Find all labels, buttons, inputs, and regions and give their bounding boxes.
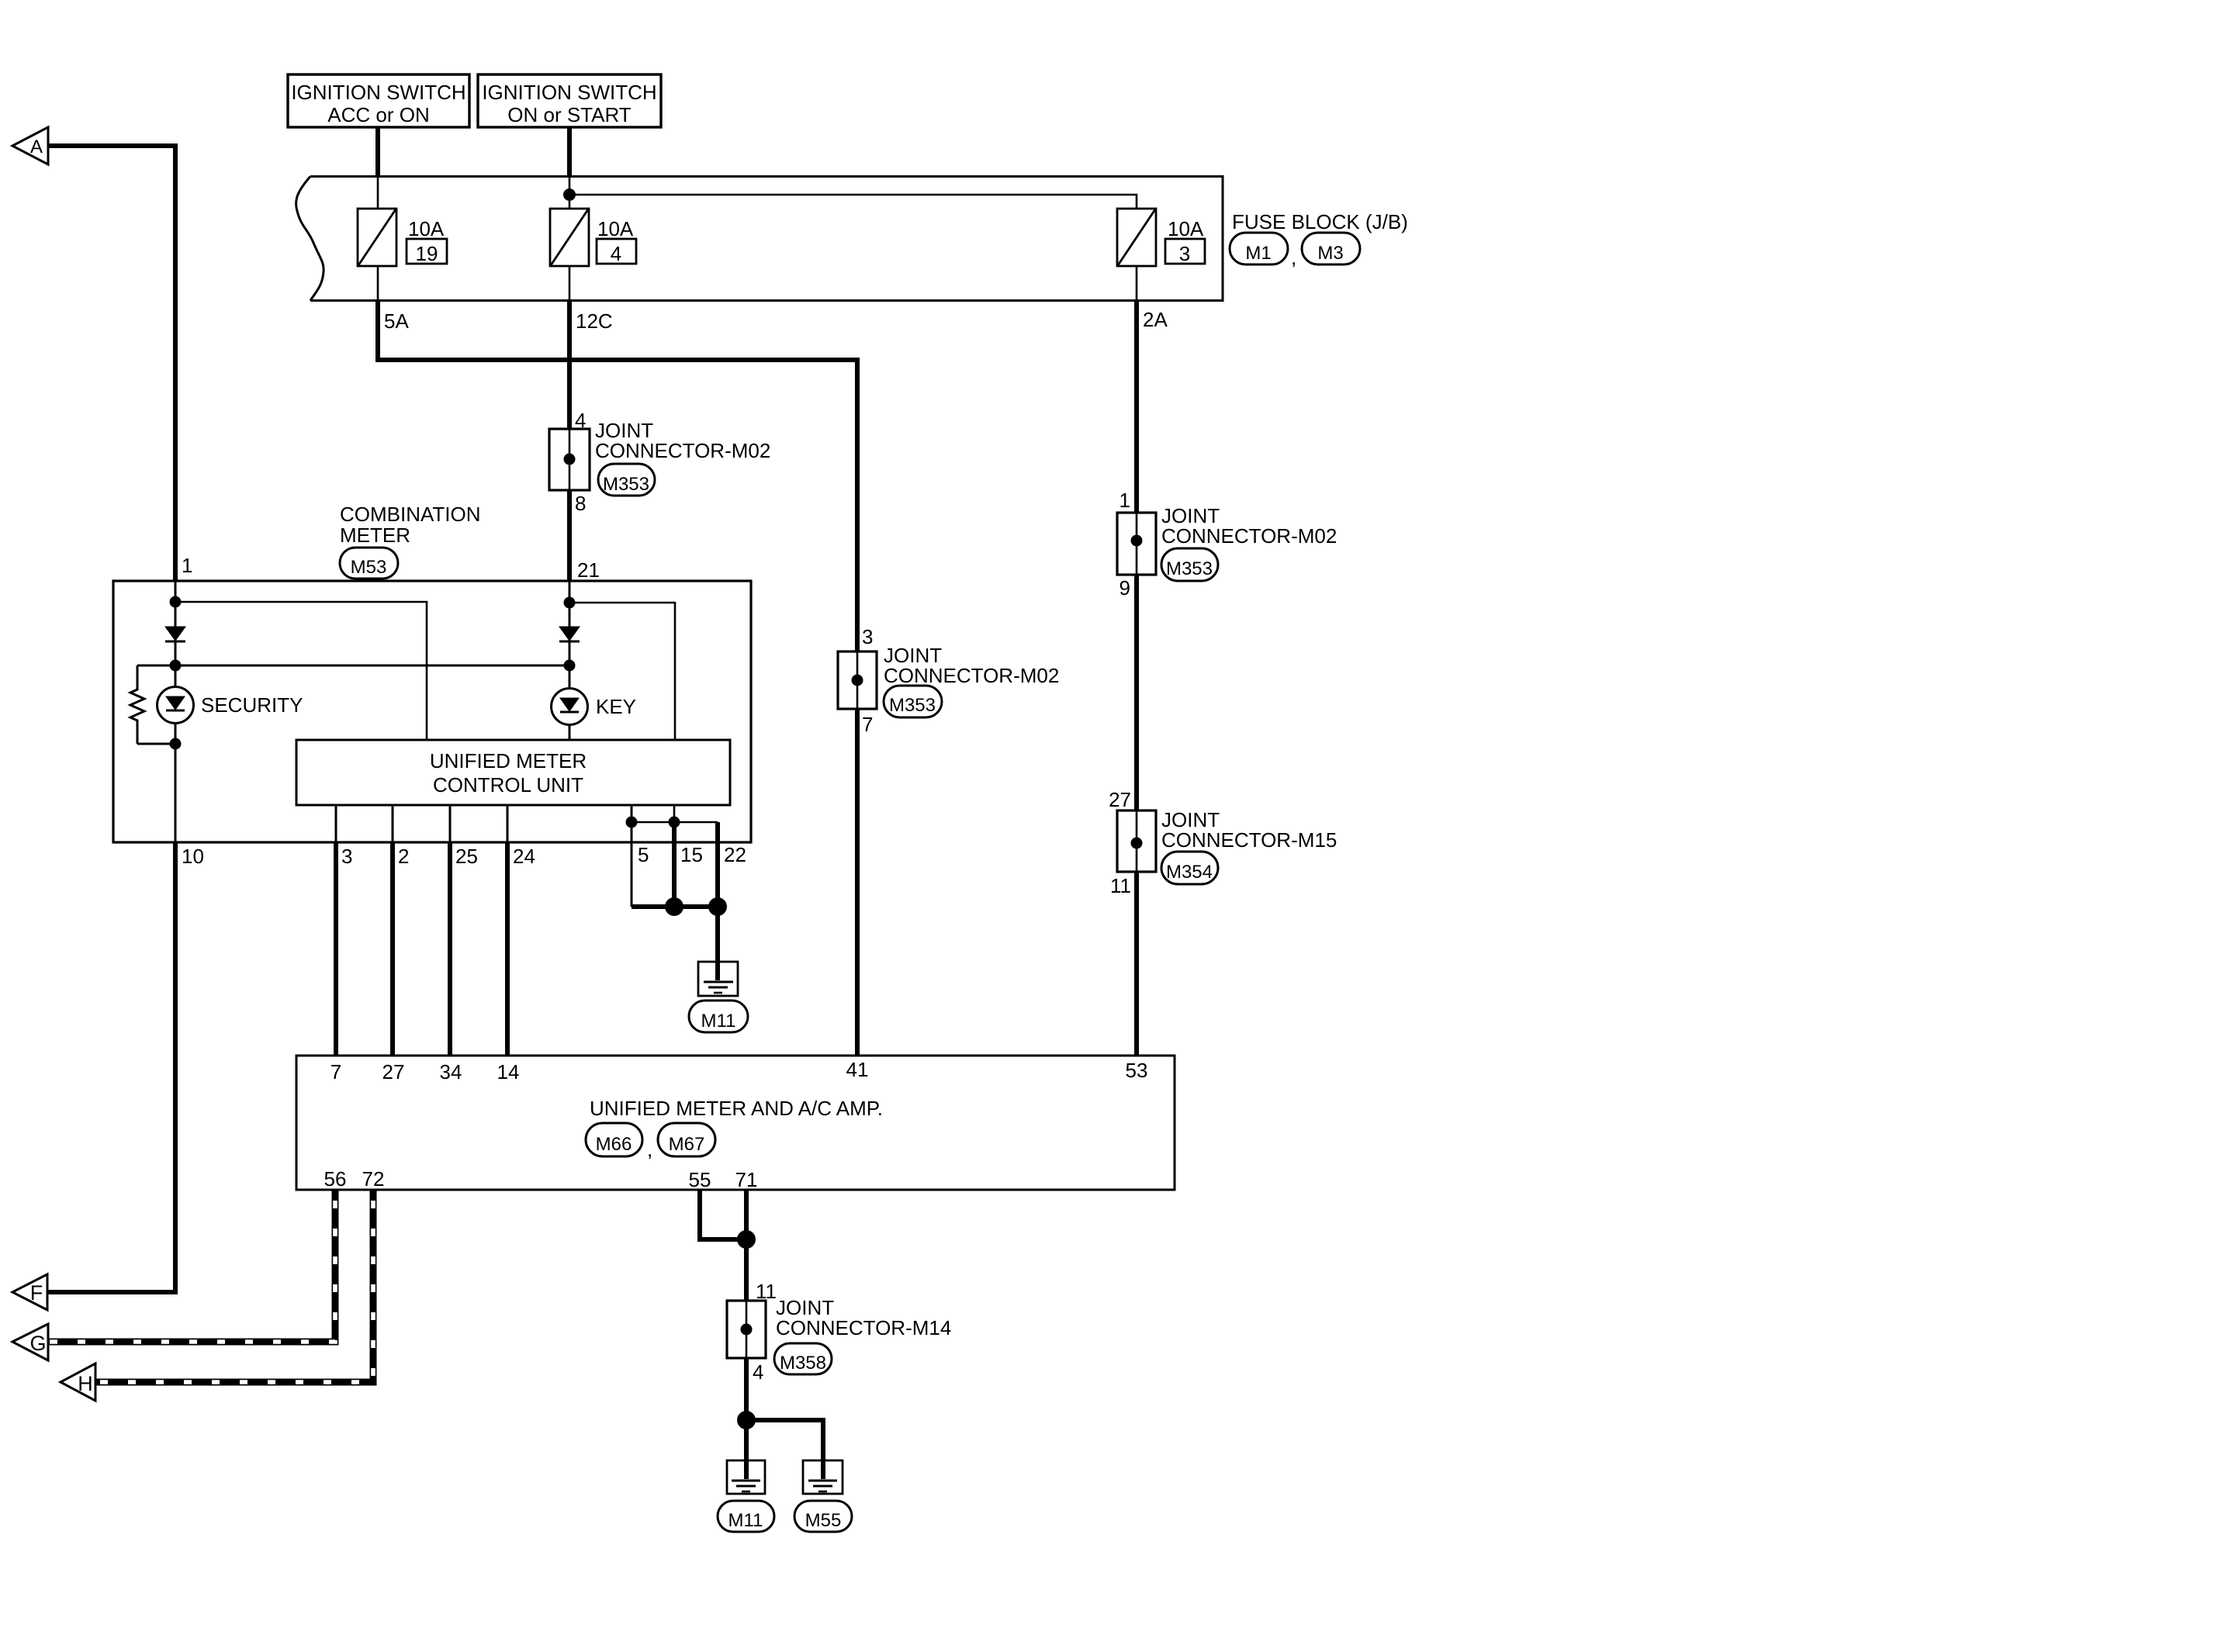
node on pin 15 — [669, 817, 680, 828]
wire: M353 pin 8 to combination meter pin 21 — [567, 490, 572, 581]
ignition switch ON or START box — [478, 74, 661, 127]
arrow A — [12, 127, 48, 164]
wire: M353 middle pin 7 to amp pin 41 — [855, 709, 860, 1056]
svg-text:2A: 2A — [1143, 308, 1168, 331]
node: wire1 top junction — [170, 596, 182, 608]
svg-text:M66: M66 — [596, 1134, 632, 1155]
diode D1 — [165, 627, 185, 641]
svg-text:F: F — [30, 1281, 43, 1305]
wire: M354 pin 11 to amp pin 53 — [1134, 872, 1139, 1056]
svg-text:UNIFIED METER: UNIFIED METER — [430, 749, 587, 772]
svg-text:CONNECTOR-M14: CONNECTOR-M14 — [776, 1316, 951, 1339]
svg-text:CONTROL UNIT: CONTROL UNIT — [433, 773, 583, 797]
svg-text:M3: M3 — [1317, 243, 1343, 264]
svg-text:5A: 5A — [384, 309, 409, 333]
ground M11 lower — [718, 1460, 774, 1532]
svg-text:10A: 10A — [408, 217, 445, 240]
unified meter control unit box — [296, 740, 730, 805]
dashed wire: amp pin 72 to arrow H — [95, 1190, 373, 1382]
svg-text:CONNECTOR-M02: CONNECTOR-M02 — [884, 664, 1059, 687]
wire: branch to ground M55 — [746, 1420, 823, 1479]
svg-text:IGNITION SWITCH: IGNITION SWITCH — [291, 81, 465, 104]
wire: 5A branch to joint connector M353 pin 3 — [378, 300, 857, 651]
svg-text:25: 25 — [455, 845, 478, 868]
wire: ON/START feed to fuse block — [567, 127, 572, 177]
svg-text:M53: M53 — [351, 557, 387, 578]
wire: security top branch to control unit — [175, 602, 427, 740]
fuse block (J/B) outline — [296, 177, 1223, 301]
svg-text:,: , — [1291, 246, 1296, 269]
svg-text:SECURITY: SECURITY — [201, 693, 303, 717]
svg-text:10A: 10A — [1168, 217, 1204, 240]
wire: control unit pin 15 stub — [673, 805, 676, 822]
unified meter and A/C amp box — [296, 1056, 1175, 1190]
svg-text:4: 4 — [611, 242, 621, 265]
svg-text:21: 21 — [577, 558, 600, 582]
wire: ACC feed to fuse block — [375, 127, 380, 177]
svg-text:53: 53 — [1126, 1059, 1148, 1082]
wire 21 internal — [569, 581, 571, 740]
svg-text:M353: M353 — [1166, 558, 1213, 579]
svg-text:1: 1 — [1119, 489, 1130, 512]
svg-text:M353: M353 — [889, 695, 936, 716]
wire: arrow A to combination meter pin 1 — [48, 146, 175, 581]
wire: internal bus to fuse 3 — [569, 195, 1137, 209]
svg-text:3: 3 — [862, 625, 873, 648]
svg-text:CONNECTOR-M15: CONNECTOR-M15 — [1161, 828, 1337, 852]
svg-text:8: 8 — [575, 492, 586, 515]
wire: control unit pin 2 stub — [392, 805, 394, 842]
wire: control unit pin 3 stub — [335, 805, 337, 842]
svg-text:METER: METER — [340, 524, 410, 547]
svg-text:34: 34 — [440, 1060, 462, 1083]
joint connector M14 (M358) — [727, 1280, 951, 1384]
wire: amp pin 55 to junction — [700, 1190, 742, 1239]
wire: control unit pin 24 stub — [507, 805, 509, 842]
svg-text:27: 27 — [1109, 788, 1131, 811]
svg-text:72: 72 — [362, 1167, 385, 1191]
svg-text:11: 11 — [1110, 874, 1131, 897]
svg-text:IGNITION SWITCH: IGNITION SWITCH — [482, 81, 656, 104]
dashed wire: amp pin 56 to arrow G — [48, 1190, 335, 1342]
wire: amp pin 71 to joint connector M14 — [744, 1190, 749, 1301]
svg-text:55: 55 — [689, 1168, 711, 1191]
node: wire21 mid junction — [564, 660, 576, 672]
svg-text:10A: 10A — [597, 217, 634, 240]
wire: ground bus — [632, 904, 718, 909]
svg-text:1: 1 — [182, 554, 192, 577]
node: wire21 top junction — [564, 597, 576, 609]
svg-text:41: 41 — [846, 1058, 869, 1081]
resistor R1 — [130, 665, 175, 744]
wire: meter pin 27 to amp — [390, 842, 395, 1056]
joint connector M15 (M354) — [1109, 788, 1337, 897]
svg-text:KEY: KEY — [596, 695, 636, 718]
diode D2 — [559, 627, 580, 641]
arrow F — [12, 1274, 47, 1310]
arrow G — [12, 1324, 48, 1360]
wire: pin 22 down — [715, 822, 720, 907]
svg-text:M1: M1 — [1245, 243, 1271, 264]
wire: to ground M11 — [715, 907, 720, 980]
connector ref M66 — [586, 1123, 642, 1156]
svg-text:7: 7 — [330, 1060, 341, 1083]
svg-text:ON or START: ON or START — [507, 103, 632, 126]
wire: meter pin 7 to amp — [334, 842, 338, 1056]
connector ref M1 — [1230, 233, 1288, 264]
wire: M353 right pin 9 to M354 pin 27 — [1134, 575, 1139, 810]
joint connector M02 (M353) top — [549, 409, 770, 515]
svg-text:FUSE BLOCK (J/B): FUSE BLOCK (J/B) — [1232, 210, 1408, 233]
fuse 3 (10A) — [1117, 209, 1205, 300]
svg-text:H: H — [78, 1372, 93, 1395]
svg-text:27: 27 — [382, 1060, 405, 1083]
ground M55 — [794, 1460, 852, 1532]
svg-text:3: 3 — [341, 845, 352, 868]
wire: meter pin 34 to amp — [448, 842, 452, 1056]
node: wire1 mid junction — [170, 660, 182, 672]
svg-text:5: 5 — [638, 843, 649, 866]
svg-text:M354: M354 — [1166, 862, 1213, 883]
svg-text:M358: M358 — [780, 1353, 826, 1374]
wire 1 internal — [175, 581, 177, 842]
node: ground split junction — [737, 1411, 756, 1429]
wire: control unit pin 25 stub — [449, 805, 452, 842]
wire: F branch from combination meter pin 10 — [48, 842, 175, 1292]
wire: security-key crossbar — [137, 665, 569, 667]
svg-text:15: 15 — [680, 843, 703, 866]
combination meter label — [340, 503, 481, 547]
wire: key top branch to control unit — [569, 603, 675, 740]
svg-text:ACC or ON: ACC or ON — [327, 103, 429, 126]
node: wire1 lower junction — [170, 738, 182, 750]
joint connector M02 (M353) right — [1117, 489, 1337, 600]
wire: meter pin 14 to amp — [505, 842, 510, 1056]
LED KEY — [552, 689, 637, 725]
connector ref M53 — [340, 548, 398, 579]
node on pin 5 — [626, 817, 638, 828]
wire: control unit pin 5 — [631, 805, 633, 907]
fuse 4 (10A) — [550, 176, 636, 300]
svg-text:2: 2 — [398, 845, 409, 868]
wire: tie bar 5-15-22 — [632, 821, 718, 824]
svg-text:4: 4 — [753, 1360, 763, 1384]
wire: down to ground M11 — [744, 1420, 749, 1479]
connector ref M3 — [1302, 233, 1360, 264]
svg-text:M55: M55 — [805, 1510, 842, 1531]
svg-text:71: 71 — [735, 1168, 758, 1191]
wire: 12C branch down — [567, 300, 572, 429]
node: 55/71 junction — [737, 1230, 756, 1249]
node: fuse bus junction — [563, 188, 576, 201]
svg-text:22: 22 — [724, 843, 746, 866]
svg-text:COMBINATION: COMBINATION — [340, 503, 481, 526]
svg-text:12C: 12C — [576, 309, 613, 333]
svg-text:,: , — [647, 1138, 652, 1161]
svg-text:M353: M353 — [603, 474, 649, 495]
ignition switch ACC or ON box — [288, 74, 469, 127]
svg-text:M11: M11 — [701, 1011, 736, 1032]
wire: M14 pin 4 down to ground junction — [744, 1358, 749, 1420]
svg-text:M67: M67 — [669, 1134, 705, 1155]
svg-text:56: 56 — [324, 1167, 347, 1191]
svg-text:19: 19 — [416, 242, 438, 265]
connector ref M67 — [658, 1123, 715, 1156]
fuse 19 (10A) — [358, 176, 447, 300]
arrow H — [61, 1363, 95, 1401]
wire: 2A branch down — [1134, 300, 1139, 513]
wire: pin 15 down — [672, 822, 677, 907]
svg-text:A: A — [30, 137, 43, 157]
svg-text:CONNECTOR-M02: CONNECTOR-M02 — [595, 439, 770, 462]
combination meter box — [113, 581, 751, 842]
svg-text:10: 10 — [182, 845, 204, 868]
node: ground bus junction 15 — [665, 897, 683, 916]
node: ground bus junction 22 — [708, 897, 727, 916]
svg-text:3: 3 — [1179, 242, 1190, 265]
svg-text:9: 9 — [1119, 576, 1130, 600]
svg-text:UNIFIED METER AND A/C AMP.: UNIFIED METER AND A/C AMP. — [590, 1097, 883, 1120]
svg-text:24: 24 — [513, 845, 535, 868]
LED SECURITY — [157, 687, 303, 724]
svg-text:G: G — [29, 1332, 46, 1355]
svg-text:7: 7 — [862, 713, 873, 736]
svg-text:CONNECTOR-M02: CONNECTOR-M02 — [1161, 524, 1337, 548]
joint connector M02 (M353) middle — [838, 625, 1059, 736]
ground M11 — [689, 962, 748, 1032]
svg-text:14: 14 — [497, 1060, 520, 1083]
svg-text:M11: M11 — [728, 1510, 763, 1531]
